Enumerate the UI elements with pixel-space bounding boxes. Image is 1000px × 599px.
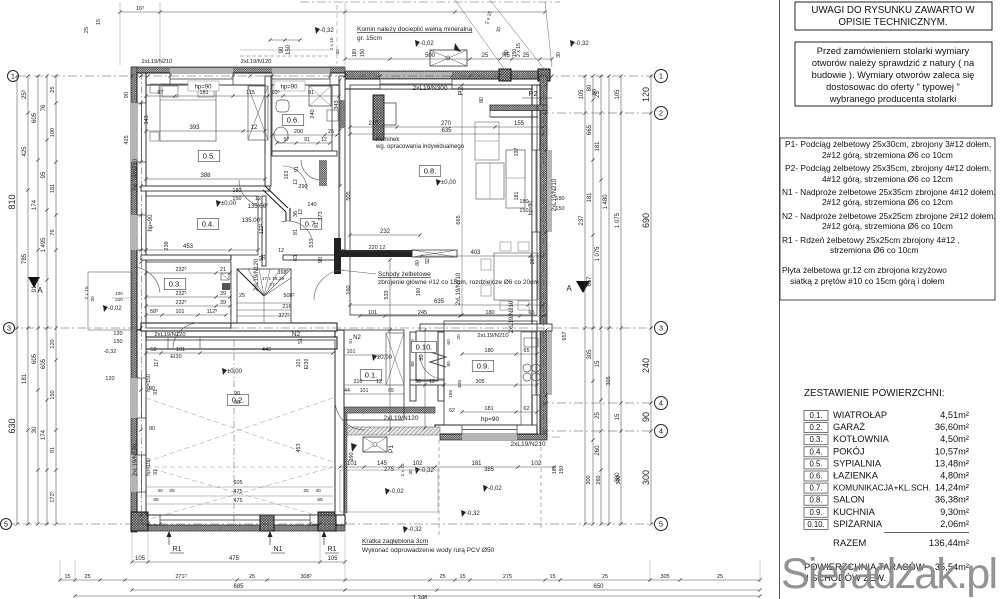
svg-text:270: 270 [441, 121, 452, 127]
svg-text:A: A [566, 284, 572, 293]
svg-text:EI30: EI30 [304, 359, 310, 370]
svg-text:453: 453 [183, 244, 194, 250]
svg-text:25: 25 [595, 412, 601, 419]
svg-text:dostosowac do oferty " typowej: dostosowac do oferty " typowej " [826, 82, 960, 92]
svg-text:0.8.: 0.8. [424, 166, 437, 175]
svg-text:101: 101 [360, 388, 369, 394]
svg-text:2xL19/N120: 2xL19/N120 [133, 443, 139, 476]
svg-text:305: 305 [606, 376, 612, 385]
svg-text:657: 657 [587, 276, 593, 287]
svg-text:OPISIE TECHNICZNYM.: OPISIE TECHNICZNYM. [838, 17, 947, 28]
svg-text:2#12 górą, strzemiona Ø6 co 10: 2#12 górą, strzemiona Ø6 co 10cm [822, 221, 953, 231]
svg-text:15: 15 [459, 574, 465, 580]
svg-text:2xL19/N210: 2xL19/N210 [142, 59, 173, 65]
svg-text:240: 240 [641, 358, 651, 373]
svg-text:ZESTAWIENIE POWIERZCHNI:: ZESTAWIENIE POWIERZCHNI: [804, 388, 944, 399]
svg-text:533: 533 [384, 290, 390, 299]
svg-text:165: 165 [448, 390, 454, 398]
svg-text:0.5.: 0.5. [809, 459, 822, 468]
svg-text:2#12 górą, strzemiona Ø6 co 10: 2#12 górą, strzemiona Ø6 co 10cm [822, 150, 953, 160]
svg-text:210: 210 [354, 379, 363, 385]
svg-text:180: 180 [232, 188, 241, 194]
svg-text:-0,02: -0,02 [390, 489, 404, 495]
svg-text:P1- Podciąg żelbetowy 25x30cm,: P1- Podciąg żelbetowy 25x30cm, zbrojony … [785, 139, 991, 149]
svg-text:181: 181 [471, 461, 482, 467]
svg-text:P2: P2 [528, 89, 537, 98]
svg-text:51: 51 [261, 254, 267, 260]
svg-text:-0,32: -0,32 [466, 511, 480, 517]
svg-text:343: 343 [144, 115, 150, 124]
svg-text:30: 30 [556, 52, 562, 58]
svg-text:390: 390 [349, 452, 355, 461]
svg-text:65: 65 [317, 497, 323, 503]
svg-text:403: 403 [470, 250, 481, 256]
svg-text:174: 174 [41, 429, 47, 440]
svg-text:91: 91 [304, 137, 310, 143]
svg-text:1 075: 1 075 [595, 246, 601, 262]
svg-text:25: 25 [439, 574, 445, 580]
svg-text:R1: R1 [328, 546, 337, 553]
svg-text:90: 90 [504, 50, 510, 56]
svg-text:Płyta żelbetowa gr.12 cm zbroj: Płyta żelbetowa gr.12 cm zbrojona krzyżo… [782, 265, 947, 275]
svg-text:5: 5 [659, 520, 663, 529]
svg-text:17 x 18,29: 17 x 18,29 [262, 276, 285, 282]
svg-text:hp=90: hp=90 [148, 214, 154, 232]
svg-text:15: 15 [615, 413, 621, 420]
svg-text:25: 25 [169, 488, 175, 494]
svg-text:180: 180 [352, 49, 358, 58]
svg-text:181: 181 [595, 141, 601, 152]
svg-text:65: 65 [528, 310, 534, 316]
svg-text:12: 12 [429, 379, 435, 385]
svg-text:120: 120 [113, 331, 122, 337]
svg-text:181: 181 [587, 192, 593, 203]
svg-text:95: 95 [41, 171, 47, 178]
svg-text:25: 25 [602, 574, 608, 580]
svg-text:90: 90 [641, 412, 651, 422]
svg-text:0.7.: 0.7. [809, 484, 822, 493]
svg-text:135,00°: 135,00° [242, 218, 263, 224]
svg-text:393: 393 [189, 125, 200, 131]
svg-text:181: 181 [22, 373, 28, 384]
svg-text:605: 605 [32, 112, 38, 123]
svg-text:65: 65 [153, 497, 159, 503]
svg-text:425: 425 [22, 146, 28, 157]
svg-text:R1 - Rdzeń żelbetowy 25x25cm z: R1 - Rdzeń żelbetowy 25x25cm zbrojony 4#… [782, 235, 960, 245]
svg-text:2xL19/N120: 2xL19/N120 [154, 332, 185, 338]
svg-text:136,44m²: 136,44m² [929, 538, 969, 549]
svg-text:385: 385 [484, 467, 495, 473]
svg-text:2xL19/N210: 2xL19/N210 [456, 272, 462, 305]
svg-text:-0,02: -0,02 [420, 41, 434, 47]
svg-text:wg. opracowania indywidualnego: wg. opracowania indywidualnego [375, 144, 465, 150]
svg-text:hp=150: hp=150 [146, 458, 152, 476]
svg-text:690: 690 [641, 213, 651, 228]
svg-text:KOMUNIKACJA+KL.SCH.: KOMUNIKACJA+KL.SCH. [833, 483, 931, 493]
svg-text:305: 305 [587, 349, 593, 360]
svg-text:Kominek: Kominek [376, 137, 400, 143]
svg-text:N2: N2 [292, 331, 301, 338]
svg-text:4#12 górą, strzemiona Ø6 co 12: 4#12 górą, strzemiona Ø6 co 12cm [822, 174, 953, 184]
svg-text:44: 44 [344, 388, 350, 394]
svg-text:91: 91 [50, 447, 56, 453]
svg-text:P2- Podciąg żelbetowy 25x35cm,: P2- Podciąg żelbetowy 25x35cm, zbrojony … [785, 163, 991, 173]
svg-text:40: 40 [157, 488, 163, 494]
svg-text:25: 25 [84, 27, 90, 33]
svg-text:36,38m²: 36,38m² [935, 495, 969, 505]
svg-text:181: 181 [199, 90, 208, 96]
svg-text:91: 91 [293, 229, 299, 235]
svg-text:3: 3 [7, 324, 11, 333]
svg-text:51: 51 [298, 338, 304, 344]
svg-text:102: 102 [531, 461, 542, 467]
svg-text:14,24m²: 14,24m² [935, 483, 969, 493]
svg-text:305: 305 [457, 380, 463, 388]
svg-text:80: 80 [419, 354, 425, 360]
svg-text:140: 140 [307, 202, 316, 208]
svg-text:2xL19/N120: 2xL19/N120 [241, 59, 272, 65]
svg-text:1 075: 1 075 [615, 212, 621, 228]
svg-text:4,51m²: 4,51m² [940, 410, 969, 420]
svg-text:120: 120 [50, 339, 56, 348]
svg-text:650: 650 [593, 584, 604, 590]
svg-text:3: 3 [659, 324, 663, 333]
svg-text:25: 25 [249, 574, 255, 580]
svg-text:181: 181 [484, 406, 493, 412]
svg-text:0.1.: 0.1. [365, 370, 378, 379]
svg-text:30: 30 [335, 49, 341, 55]
svg-text:657: 657 [562, 331, 568, 340]
svg-text:665: 665 [587, 124, 593, 135]
svg-text:27: 27 [269, 282, 275, 288]
svg-text:91: 91 [294, 166, 300, 172]
svg-text:40: 40 [315, 488, 321, 494]
svg-text:12: 12 [376, 379, 382, 385]
svg-text:SALON: SALON [833, 495, 865, 505]
svg-text:150: 150 [519, 208, 528, 214]
svg-text:120: 120 [641, 87, 651, 102]
svg-text:100: 100 [50, 128, 56, 137]
svg-text:N2: N2 [353, 335, 361, 341]
svg-text:-0,32: -0,32 [320, 28, 334, 34]
svg-text:2xL19/N120: 2xL19/N120 [383, 415, 418, 422]
svg-text:101: 101 [176, 309, 185, 315]
svg-text:strzemiona Ø6 co 10cm: strzemiona Ø6 co 10cm [830, 245, 918, 255]
svg-text:Sieradzak.pl: Sieradzak.pl [781, 550, 998, 598]
svg-text:siatką z prętów #10 co 15cm gó: siatką z prętów #10 co 15cm górą i dołem [790, 276, 945, 286]
svg-text:630: 630 [7, 418, 17, 433]
svg-text:39: 39 [220, 291, 226, 297]
svg-text:300: 300 [586, 475, 592, 484]
svg-text:150: 150 [360, 49, 366, 58]
svg-text:12: 12 [255, 196, 261, 202]
svg-text:ŁAZIENKA: ŁAZIENKA [833, 471, 879, 481]
svg-text:POKÓJ: POKÓJ [833, 446, 865, 456]
svg-text:0.2.: 0.2. [809, 423, 822, 432]
svg-text:425: 425 [124, 135, 130, 144]
svg-text:91: 91 [32, 285, 38, 292]
svg-text:0.3.: 0.3. [809, 435, 822, 444]
svg-text:62: 62 [523, 406, 529, 412]
svg-text:62: 62 [449, 408, 455, 414]
svg-text:0.9.: 0.9. [809, 508, 822, 517]
svg-text:0.4.: 0.4. [809, 447, 822, 456]
svg-text:475: 475 [229, 556, 240, 562]
svg-text:GARAŻ: GARAŻ [833, 422, 865, 432]
svg-text:90: 90 [318, 257, 324, 263]
svg-text:80: 80 [410, 361, 416, 367]
svg-text:80: 80 [592, 89, 598, 95]
svg-text:200: 200 [294, 129, 303, 135]
svg-text:160: 160 [416, 288, 422, 297]
svg-text:287: 287 [530, 256, 536, 265]
svg-text:-0,32: -0,32 [420, 468, 434, 474]
svg-text:180: 180 [555, 196, 564, 202]
svg-text:91: 91 [308, 90, 314, 96]
svg-text:30: 30 [32, 426, 38, 433]
svg-text:135,00°: 135,00° [248, 204, 269, 210]
svg-text:15: 15 [595, 360, 601, 367]
svg-text:97: 97 [157, 90, 163, 96]
svg-text:101: 101 [296, 359, 302, 368]
svg-text:N2 - Nadproże żelbetowe 25x25c: N2 - Nadproże żelbetowe 25x25cm zbrojone… [782, 211, 996, 221]
svg-text:388: 388 [200, 173, 211, 179]
svg-text:0.6.: 0.6. [809, 472, 822, 481]
svg-text:4: 4 [659, 427, 663, 436]
svg-text:2xL19/N120: 2xL19/N120 [254, 258, 260, 291]
svg-text:-0,32: -0,32 [408, 527, 422, 533]
svg-text:25: 25 [717, 574, 723, 580]
svg-text:hp=90: hp=90 [281, 85, 299, 91]
svg-text:163: 163 [284, 171, 290, 180]
svg-text:100: 100 [115, 291, 123, 296]
svg-text:10,57m²: 10,57m² [935, 446, 969, 456]
svg-text:475: 475 [234, 498, 243, 504]
svg-text:51: 51 [348, 338, 354, 344]
svg-text:25: 25 [239, 293, 245, 299]
svg-text:76: 76 [50, 229, 56, 235]
svg-text:0.10.: 0.10. [807, 520, 824, 529]
svg-text:96: 96 [415, 379, 421, 385]
svg-text:275: 275 [503, 574, 512, 580]
svg-text:39: 39 [220, 300, 226, 306]
svg-text:1 495: 1 495 [41, 237, 47, 253]
svg-text:605: 605 [32, 353, 38, 364]
svg-text:4,50m²: 4,50m² [940, 434, 969, 444]
svg-text:25: 25 [523, 53, 530, 59]
svg-text:30: 30 [90, 296, 96, 302]
svg-text:343: 343 [334, 100, 340, 109]
svg-text:2xL19/N210: 2xL19/N210 [510, 441, 545, 448]
svg-text:hp=90: hp=90 [528, 201, 534, 216]
svg-text:90: 90 [149, 426, 155, 432]
svg-text:0.4.: 0.4. [202, 219, 215, 228]
svg-text:0.6.: 0.6. [287, 115, 300, 124]
svg-text:12: 12 [293, 179, 299, 185]
svg-text:90: 90 [149, 386, 155, 392]
svg-text:80: 80 [446, 361, 452, 367]
svg-text:P1: P1 [388, 445, 395, 453]
svg-text:150: 150 [559, 466, 565, 475]
svg-text:0.5.: 0.5. [203, 151, 216, 160]
svg-text:91: 91 [314, 222, 320, 228]
svg-text:gr. 15cm: gr. 15cm [357, 35, 382, 42]
svg-text:150: 150 [555, 206, 564, 212]
svg-text:wybranego producenta stolarki: wybranego producenta stolarki [829, 94, 957, 104]
svg-text:1 346: 1 346 [412, 596, 428, 599]
svg-text:150: 150 [50, 390, 56, 399]
svg-text:605: 605 [234, 480, 243, 486]
svg-text:15: 15 [96, 19, 102, 25]
svg-text:-0,32: -0,32 [104, 349, 117, 355]
svg-text:685: 685 [233, 584, 244, 590]
svg-text:300: 300 [616, 475, 622, 484]
svg-text:0.8.: 0.8. [809, 496, 822, 505]
svg-text:Komin należy docieplić wełną m: Komin należy docieplić wełną mineralną [357, 26, 473, 33]
svg-text:58: 58 [150, 347, 156, 353]
svg-text:13,48m²: 13,48m² [935, 458, 969, 468]
svg-text:90: 90 [234, 400, 240, 406]
svg-text:240: 240 [310, 109, 316, 118]
svg-text:KUCHNIA: KUCHNIA [833, 507, 876, 517]
svg-text:-0,32: -0,32 [575, 41, 589, 47]
svg-text:63: 63 [293, 255, 299, 261]
svg-text:Kratka zagłębiona 3cm: Kratka zagłębiona 3cm [362, 538, 428, 545]
svg-text:533: 533 [309, 238, 315, 247]
svg-text:-0,02: -0,02 [108, 306, 122, 312]
svg-text:0.3.: 0.3. [169, 279, 182, 288]
svg-text:±0,00: ±0,00 [227, 369, 243, 375]
svg-text:810: 810 [7, 194, 17, 209]
svg-text:105: 105 [579, 89, 585, 100]
svg-text:WIATROŁAP: WIATROŁAP [833, 410, 887, 420]
svg-text:SYPIALNIA: SYPIALNIA [833, 458, 882, 468]
svg-text:505: 505 [346, 191, 352, 200]
svg-text:15: 15 [549, 574, 555, 580]
svg-text:5: 5 [4, 520, 8, 529]
svg-text:160: 160 [346, 285, 352, 294]
svg-text:±0,00: ±0,00 [441, 180, 457, 186]
svg-text:635: 635 [434, 299, 445, 305]
svg-text:-0,02: -0,02 [488, 486, 502, 492]
svg-text:2 x 15: 2 x 15 [84, 286, 90, 299]
svg-text:KOTŁOWNIA: KOTŁOWNIA [833, 434, 890, 444]
svg-text:12: 12 [251, 125, 258, 131]
svg-text:210: 210 [368, 121, 379, 127]
svg-text:91: 91 [153, 469, 159, 475]
svg-text:181: 181 [50, 184, 56, 193]
svg-text:216: 216 [283, 304, 292, 310]
svg-text:453: 453 [296, 444, 302, 453]
svg-text:4: 4 [659, 399, 663, 408]
svg-text:SPIŻARNIA: SPIŻARNIA [833, 519, 883, 529]
svg-text:237: 237 [579, 215, 585, 226]
svg-text:65: 65 [523, 348, 529, 354]
svg-text:97: 97 [284, 137, 290, 143]
svg-text:80: 80 [415, 260, 421, 266]
svg-text:25: 25 [328, 129, 334, 135]
svg-text:305: 305 [660, 574, 669, 580]
svg-text:25: 25 [84, 574, 90, 580]
svg-text:500: 500 [425, 53, 436, 59]
svg-text:Wykonać odprowadzenie wody rur: Wykonać odprowadzenie wody rurą PCV Ø50 [362, 547, 495, 554]
svg-text:305: 305 [475, 379, 484, 385]
svg-text:2: 2 [659, 109, 663, 118]
svg-text:102: 102 [412, 461, 423, 467]
svg-text:1: 1 [659, 72, 663, 81]
svg-text:Przed zamówieniem stolarki wym: Przed zamówieniem stolarki wymiary [817, 46, 970, 56]
svg-text:2xL19/N210: 2xL19/N210 [133, 158, 139, 191]
svg-text:605: 605 [41, 358, 47, 369]
svg-text:2,06m²: 2,06m² [940, 519, 969, 529]
svg-text:120: 120 [105, 376, 114, 382]
svg-text:12: 12 [321, 137, 327, 143]
svg-text:665: 665 [456, 215, 462, 224]
svg-text:2xL19/N210: 2xL19/N210 [477, 333, 508, 339]
svg-text:76: 76 [41, 104, 47, 111]
svg-text:150: 150 [286, 44, 292, 55]
svg-text:174: 174 [32, 199, 38, 210]
svg-text:101: 101 [176, 347, 185, 353]
svg-text:105: 105 [135, 556, 146, 562]
svg-text:180: 180 [519, 199, 528, 205]
svg-text:Schody żelbetowe: Schody żelbetowe [378, 271, 431, 278]
svg-text:180: 180 [485, 310, 494, 316]
svg-text:4,80m²: 4,80m² [940, 471, 969, 481]
svg-text:budowie ). Wymiary otworów zal: budowie ). Wymiary otworów zaleca się [812, 70, 975, 80]
svg-text:otworów należy sprawdzić z nat: otworów należy sprawdzić z natury ( na [812, 58, 975, 68]
svg-text:0.9.: 0.9. [477, 361, 490, 370]
svg-text:N1: N1 [274, 546, 283, 553]
svg-text:210: 210 [115, 297, 123, 302]
svg-text:0.1.: 0.1. [809, 411, 822, 420]
svg-text:25: 25 [482, 53, 489, 59]
svg-text:P2: P2 [458, 87, 465, 96]
svg-text:25: 25 [303, 488, 309, 494]
svg-text:373: 373 [318, 211, 324, 220]
svg-text:150: 150 [113, 339, 122, 345]
svg-text:2xL19/N300: 2xL19/N300 [412, 85, 447, 92]
svg-text:117: 117 [154, 359, 160, 367]
svg-text:9,30m²: 9,30m² [940, 507, 969, 517]
svg-text:12: 12 [278, 248, 284, 254]
svg-text:2 x 15: 2 x 15 [516, 43, 522, 57]
svg-text:N1 - Nadproże żelbetowe 25x35c: N1 - Nadproże żelbetowe 25x35cm zbrojone… [782, 187, 996, 197]
svg-text:105: 105 [615, 89, 621, 100]
svg-text:25: 25 [50, 86, 56, 92]
svg-text:785: 785 [22, 253, 28, 264]
svg-text:290: 290 [298, 184, 307, 190]
svg-text:0.10.: 0.10. [416, 342, 433, 351]
svg-text:150: 150 [232, 196, 241, 202]
svg-text:15: 15 [64, 574, 70, 580]
svg-text:90: 90 [124, 92, 130, 98]
svg-text:232: 232 [380, 229, 391, 235]
svg-text:220 12: 220 12 [369, 245, 386, 251]
svg-text:UWAGI DO RYSUNKU ZAWARTO W: UWAGI DO RYSUNKU ZAWARTO W [811, 5, 975, 16]
svg-text:90: 90 [234, 391, 240, 397]
svg-text:635: 635 [441, 128, 452, 134]
svg-text:180: 180 [484, 348, 493, 354]
svg-text:115: 115 [246, 90, 255, 96]
svg-text:238: 238 [164, 241, 170, 250]
svg-text:RAZEM: RAZEM [833, 538, 866, 549]
svg-text:260: 260 [595, 445, 601, 456]
svg-text:EI30: EI30 [170, 354, 181, 360]
svg-text:105: 105 [327, 556, 338, 562]
svg-text:300: 300 [641, 470, 651, 485]
svg-text:155: 155 [514, 121, 525, 127]
